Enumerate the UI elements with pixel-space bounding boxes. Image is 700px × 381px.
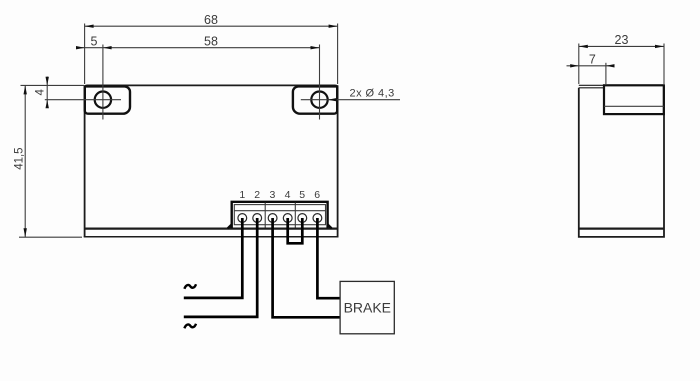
dimension 7 [567,53,615,68]
flange lip top lines [579,84,604,86]
ext line body right top [337,24,339,85]
svg-text:41,5: 41,5 [13,147,25,169]
AC symbol lower [184,324,196,329]
ext line body bottom left horizontal [19,236,82,238]
jumper terminal4-5 [288,218,303,243]
svg-text:1: 1 [239,189,245,201]
mounting hole right [311,92,327,108]
ext line body left top [84,24,86,85]
svg-text:5: 5 [91,34,98,48]
dimension 4 (vertical, left) [35,77,49,109]
front view body outline [84,85,339,236]
centerline hole right horizontal [301,99,328,101]
centerlines and extension lines [19,24,338,238]
svg-text:58: 58 [204,35,218,49]
wire terminal6 to brake [317,218,340,298]
svg-text:7: 7 [589,53,596,67]
bottom inner line [579,228,664,230]
mounting ear right [293,86,337,113]
side ext lines [579,44,664,85]
mounting ear left [85,86,130,113]
terminal circles [238,214,322,223]
terminal block outer [228,202,332,229]
svg-text:2: 2 [254,189,260,201]
svg-text:3: 3 [269,189,275,201]
side top block (terminal area) [604,85,664,114]
dimension 58 and 5 [76,34,320,49]
svg-text:23: 23 [615,33,629,47]
svg-text:5: 5 [299,189,305,201]
mounting hole left [95,92,111,108]
side body outline [579,85,664,237]
AC symbol upper [184,284,196,289]
svg-text:4: 4 [35,89,47,96]
wire terminal3 to brake [273,218,340,317]
bottom plate inner line [85,228,338,230]
svg-text:2x Ø 4,3: 2x Ø 4,3 [350,88,395,100]
wire terminal2 to ~ [184,218,257,317]
dimension 23 [579,33,664,48]
dimension 68 [85,13,338,28]
leader 2x Ø 4,3 [328,88,400,102]
dimension 41,5 (vertical, far left) [13,85,27,237]
wire terminal1 to ~ [184,218,243,298]
centerline hole left horizontal [45,99,121,101]
centerline hole right vertical [319,45,321,120]
svg-text:4: 4 [285,189,291,201]
svg-text:BRAKE: BRAKE [344,300,391,316]
terminal block inner [234,203,325,228]
svg-text:68: 68 [204,13,218,27]
main body [579,85,664,237]
ext line body top left horizontal [21,84,85,86]
centerline hole left vertical [102,45,104,120]
brake box [340,281,394,333]
terminal numbers 1-6 [239,189,320,201]
side block inner line [604,105,664,107]
svg-text:6: 6 [314,189,320,201]
